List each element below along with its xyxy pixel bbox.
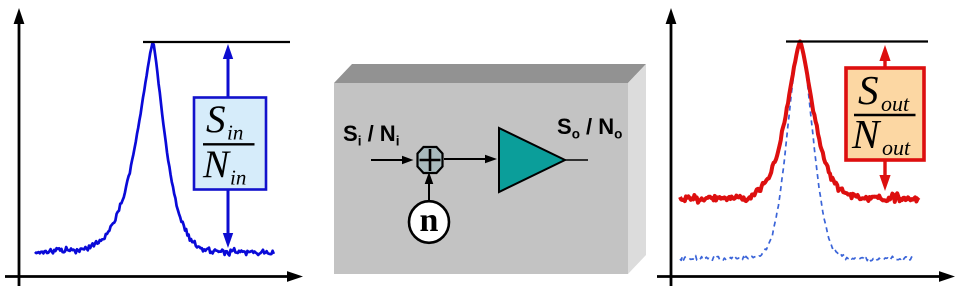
wire noise source to adder (425, 172, 434, 200)
amplifier 3D block: front face (334, 83, 628, 274)
adder (summing junction) (418, 147, 443, 173)
amplifier 3D block: top face (334, 64, 646, 83)
noise source n (circle) (409, 201, 449, 243)
svg-text:S: S (858, 67, 879, 113)
svg-text:S: S (206, 98, 226, 141)
svg-text:Si / Ni: Si / Ni (343, 121, 399, 149)
output wire (565, 159, 588, 161)
left plot y-axis (14, 8, 25, 286)
svg-text:in: in (227, 121, 243, 145)
left input signal peak curve (S_in) (35, 43, 274, 256)
left S_in/N_in label box (194, 98, 266, 190)
label N_out (851, 111, 911, 160)
right input signal (dashed blue, for comparison) (680, 45, 915, 261)
right output signal peak curve (red) (680, 41, 919, 202)
left plot x-axis (5, 271, 303, 282)
right plot x-axis (657, 271, 955, 282)
right S/N measurement arrow (double headed, red) (879, 45, 890, 191)
svg-text:out: out (882, 135, 911, 160)
label S_out (858, 67, 910, 116)
label N_in (202, 143, 246, 190)
left fraction bar (203, 143, 255, 145)
wire arrow adder to amplifier (444, 155, 497, 164)
label S_in (206, 98, 243, 145)
left peak reference line (143, 41, 290, 43)
amplifier 3D block: right side face (628, 64, 646, 274)
left S/N measurement arrow (double headed, blue) (223, 44, 233, 248)
svg-text:n: n (420, 202, 439, 239)
svg-text:N: N (202, 143, 231, 186)
input wire arrow into adder (371, 156, 414, 164)
right plot y-axis (666, 8, 677, 286)
svg-text:N: N (851, 111, 882, 157)
svg-text:So / No: So / No (557, 114, 622, 142)
svg-text:in: in (230, 166, 246, 190)
right S_out/N_out label box (846, 68, 924, 160)
right fraction bar (854, 114, 916, 116)
amplifier triangle A1 (499, 128, 565, 192)
right peak reference line (786, 40, 928, 42)
svg-text:out: out (881, 91, 910, 116)
